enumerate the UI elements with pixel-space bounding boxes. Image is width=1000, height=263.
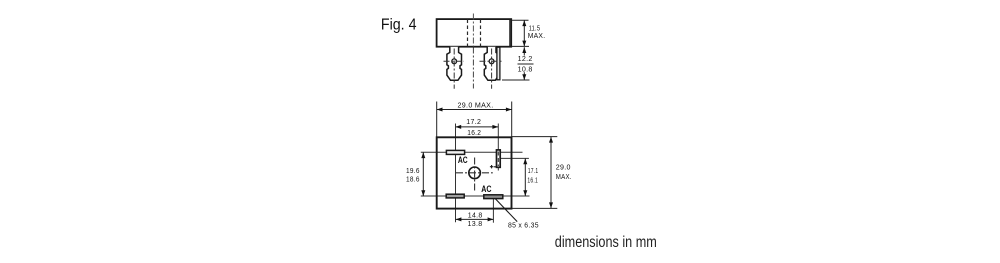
svg-text:AC: AC	[481, 184, 492, 194]
svg-text:10.8: 10.8	[518, 66, 533, 73]
svg-text:29.0 MAX.: 29.0 MAX.	[458, 103, 494, 110]
svg-text:85 x 6.35: 85 x 6.35	[508, 223, 539, 230]
svg-text:12.2: 12.2	[518, 56, 533, 63]
svg-text:13.8: 13.8	[468, 221, 483, 228]
svg-text:16.2: 16.2	[467, 130, 481, 137]
svg-text:dimensions in mm: dimensions in mm	[555, 234, 657, 251]
svg-text:18.6: 18.6	[406, 177, 420, 184]
svg-text:MAX.: MAX.	[528, 33, 546, 40]
svg-text:AC: AC	[458, 155, 468, 165]
svg-text:14.8: 14.8	[468, 213, 483, 220]
svg-text:17.1: 17.1	[528, 168, 539, 175]
svg-text:16.1: 16.1	[527, 178, 538, 185]
svg-text:19.6: 19.6	[406, 168, 420, 175]
svg-text:MAX.: MAX.	[556, 174, 572, 181]
svg-text:11.5: 11.5	[529, 26, 541, 33]
svg-text:17.2: 17.2	[466, 119, 481, 126]
svg-text:29.0: 29.0	[556, 164, 571, 171]
svg-text:Fig. 4: Fig. 4	[381, 16, 417, 33]
